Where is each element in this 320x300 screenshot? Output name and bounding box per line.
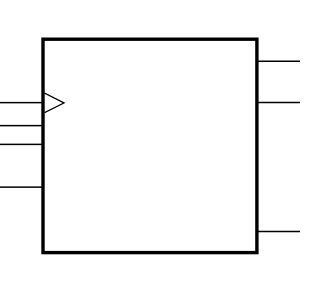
wire pin left 4 [0,186,43,188]
wire pin left 3 [0,143,43,145]
wire pin right 3 [257,231,300,233]
clock triangle [45,93,64,112]
IC body U1 [43,39,257,252]
wire pin left 2 [0,125,43,127]
wire pin right 2 [257,102,300,104]
wire pin right 1 [257,60,300,62]
wire pin left 1 (clock input) [0,102,43,104]
